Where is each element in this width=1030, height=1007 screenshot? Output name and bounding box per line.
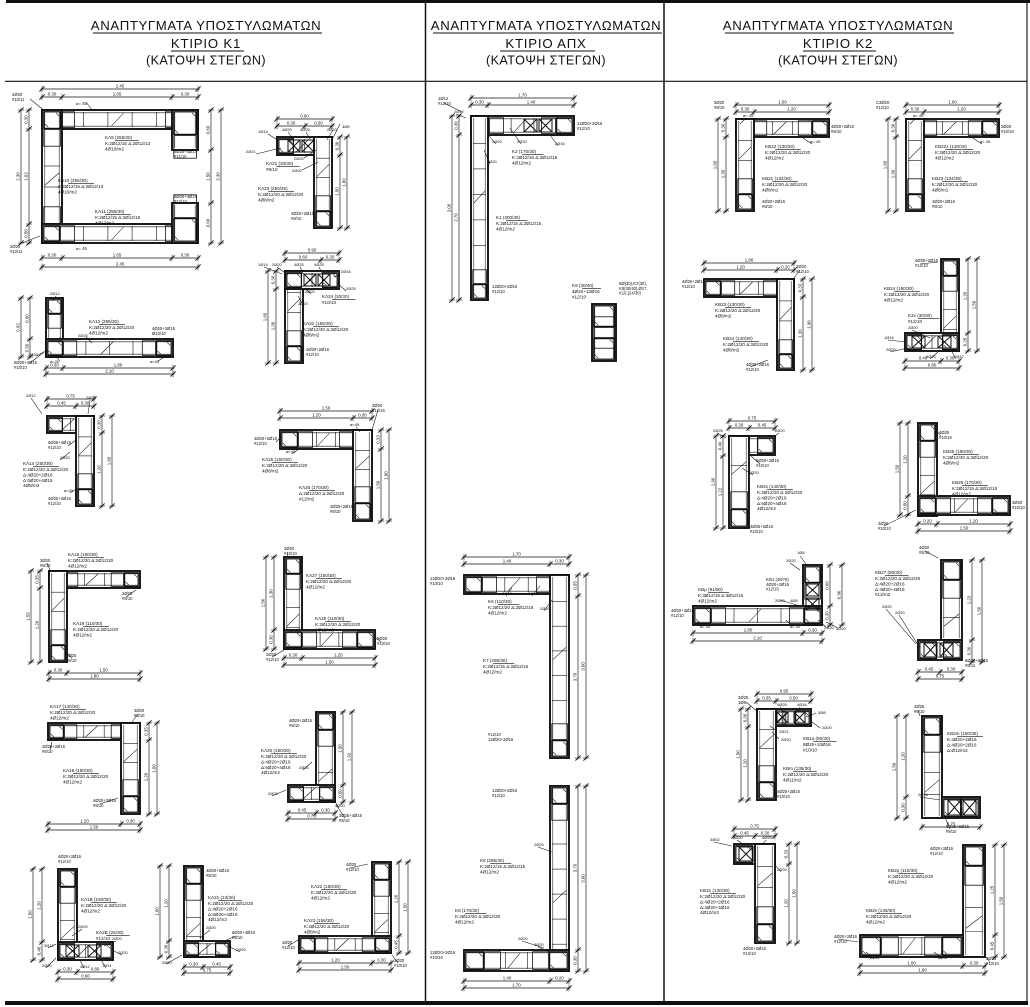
svg-text:Δ:4Ø20+2Ø16: Δ:4Ø20+2Ø16	[875, 581, 905, 586]
svg-text:1.50: 1.50	[341, 964, 350, 969]
svg-text:1.80: 1.80	[114, 362, 123, 367]
svg-text:2Ø20: 2Ø20	[28, 352, 39, 357]
svg-text:#10/10: #10/10	[322, 300, 336, 305]
svg-text:Δ:4Ø20+2Ø16: Δ:4Ø20+2Ø16	[261, 759, 291, 764]
svg-text:0.60: 0.60	[300, 113, 309, 118]
svg-text:Δ:4Ø20+2Ø16: Δ:4Ø20+2Ø16	[757, 495, 787, 500]
svg-text:1.50: 1.50	[971, 300, 976, 309]
svg-text:⌀=45: ⌀=45	[64, 488, 74, 493]
svg-text:2Ø12: 2Ø12	[50, 291, 61, 296]
svg-text:Δ:6Ø20+4Ø16: Δ:6Ø20+4Ø16	[208, 912, 238, 917]
svg-text:4Ø8/m2: 4Ø8/m2	[723, 347, 740, 352]
svg-text:2Ø20: 2Ø20	[112, 936, 123, 941]
svg-text:#8/10: #8/10	[831, 129, 842, 134]
svg-text:1.30: 1.30	[270, 321, 275, 330]
svg-text:3.00: 3.00	[446, 203, 451, 212]
svg-text:K:2Ø12/20 Δ:2Ø12/20: K:2Ø12/20 Δ:2Ø12/20	[866, 914, 912, 919]
svg-text:2Ø20: 2Ø20	[517, 139, 528, 144]
svg-text:#8/10: #8/10	[914, 709, 925, 714]
svg-text:#12/10: #12/10	[572, 294, 586, 299]
svg-text:1Ø6: 1Ø6	[738, 700, 747, 705]
svg-text:#10/10: #10/10	[394, 963, 407, 968]
svg-text:1.50: 1.50	[260, 598, 265, 607]
svg-text:2Ø20: 2Ø20	[294, 156, 305, 161]
svg-text:K:2Ø12/20 Δ:2Ø12/20: K:2Ø12/20 Δ:2Ø12/20	[700, 894, 746, 899]
svg-text:1.30: 1.30	[268, 589, 273, 598]
svg-text:0.30: 0.30	[96, 420, 101, 429]
svg-text:1.60: 1.60	[262, 312, 267, 321]
svg-text:0.30: 0.30	[735, 422, 744, 427]
svg-text:⌀=45: ⌀=45	[286, 449, 296, 454]
svg-text:⌀=45: ⌀=45	[150, 359, 160, 364]
svg-text:4Ø25: 4Ø25	[294, 262, 305, 267]
svg-text:1.20: 1.20	[957, 106, 966, 111]
svg-text:1.50: 1.50	[90, 824, 99, 829]
svg-text:0.80: 0.80	[91, 966, 100, 971]
svg-text:4Ø12/m2: 4Ø12/m2	[698, 598, 717, 603]
svg-text:0.45: 0.45	[57, 400, 66, 405]
svg-text:KΛ21 (30/30): KΛ21 (30/30)	[266, 161, 294, 166]
svg-text:⌀=45: ⌀=45	[938, 955, 948, 960]
svg-text:4Ø12/m2: 4Ø12/m2	[512, 160, 531, 165]
svg-text:K:2Ø12/15 Δ:2Ø12/15: K:2Ø12/15 Δ:2Ø12/15	[952, 486, 998, 491]
svg-text:K:2Ø12/15 Δ:2Ø12/13: K:2Ø12/15 Δ:2Ø12/13	[105, 141, 151, 146]
svg-text:2Ø20: 2Ø20	[908, 325, 919, 330]
svg-text:0.33: 0.33	[783, 849, 788, 858]
svg-text:0.33: 0.33	[375, 435, 380, 444]
svg-text:KΛ25 (150/30): KΛ25 (150/30)	[262, 457, 292, 462]
svg-text:Δ:4Ø20+2Ø16: Δ:4Ø20+2Ø16	[947, 742, 977, 747]
svg-text:0.45: 0.45	[212, 961, 221, 966]
svg-text:1.20: 1.20	[80, 818, 89, 823]
svg-text:2Ø12: 2Ø12	[454, 109, 465, 114]
svg-text:1.50: 1.50	[402, 903, 407, 912]
svg-text:K:2Ø12/15 Δ:2Ø12/15: K:2Ø12/15 Δ:2Ø12/15	[480, 864, 526, 869]
svg-text:#11/10: #11/10	[174, 154, 187, 159]
svg-text:#10/10: #10/10	[756, 463, 769, 468]
svg-text:1.50: 1.50	[375, 480, 380, 489]
svg-text:Ø10/10: Ø10/10	[152, 331, 166, 336]
svg-text:1.60: 1.60	[106, 456, 111, 465]
svg-text:2Ø20: 2Ø20	[882, 604, 893, 609]
svg-text:1.60: 1.60	[948, 99, 957, 104]
svg-text:K7 (295/30): K7 (295/30)	[483, 658, 507, 663]
svg-text:0.45: 0.45	[758, 422, 767, 427]
svg-text:1Ø14: 1Ø14	[258, 262, 269, 267]
svg-text:#12/10: #12/10	[492, 793, 505, 798]
svg-text:1.50: 1.50	[960, 525, 969, 530]
svg-text:KΒ27 (90/30): KΒ27 (90/30)	[875, 570, 903, 575]
svg-text:#12/10: #12/10	[266, 657, 279, 662]
svg-text:K:2Ø12/20 Δ:2Ø12/20: K:2Ø12/20 Δ:2Ø12/20	[262, 463, 308, 468]
svg-text:K:2Ø12/20 Δ:2Ø12/20: K:2Ø12/20 Δ:2Ø12/20	[875, 576, 921, 581]
svg-text:1.40: 1.40	[503, 558, 512, 563]
svg-text:#12/10: #12/10	[492, 289, 505, 294]
svg-text:0.20: 0.20	[923, 518, 932, 523]
svg-text:4Ø8/m2: 4Ø8/m2	[262, 468, 279, 473]
svg-text:0.30: 0.30	[808, 627, 817, 632]
svg-text:1.20: 1.20	[143, 772, 148, 781]
svg-text:#12/m2: #12/m2	[299, 496, 315, 501]
svg-text:1.20: 1.20	[312, 412, 321, 417]
svg-text:#8/10: #8/10	[232, 935, 243, 940]
svg-text:Δ:4Ø20+2Ø16: Δ:4Ø20+2Ø16	[208, 906, 238, 911]
svg-text:0.60: 0.60	[824, 581, 829, 590]
svg-text:4Ø12/m2: 4Ø12/m2	[866, 919, 885, 924]
svg-text:0.20: 0.20	[555, 975, 564, 980]
svg-text:4Ø12/m2: 4Ø12/m2	[95, 220, 114, 225]
svg-text:4Ø12/m2: 4Ø12/m2	[765, 155, 784, 160]
svg-text:0.30: 0.30	[54, 667, 63, 672]
svg-text:4Ø12/m2: 4Ø12/m2	[700, 910, 719, 915]
svg-text:#10/10: #10/10	[1001, 129, 1014, 134]
svg-text:2.10: 2.10	[105, 368, 114, 373]
svg-text:#10/10: #10/10	[1012, 505, 1025, 510]
svg-text:1.60: 1.60	[778, 99, 787, 104]
svg-text:0.30: 0.30	[572, 956, 577, 965]
svg-text:1.40: 1.40	[527, 99, 536, 104]
svg-text:0.45: 0.45	[298, 807, 307, 812]
svg-text:1.50: 1.50	[891, 762, 896, 771]
svg-text:KΛ12 (255/30): KΛ12 (255/30)	[89, 319, 119, 324]
svg-text:#12/10: #12/10	[743, 951, 756, 956]
svg-text:1.20: 1.20	[742, 759, 747, 768]
svg-text:4Ø25: 4Ø25	[314, 262, 325, 267]
svg-text:4Ø12/m2: 4Ø12/m2	[306, 584, 325, 589]
svg-text:4Ø25: 4Ø25	[282, 127, 293, 132]
svg-text:K:2Ø12/20 Δ:2Ø12/20: K:2Ø12/20 Δ:2Ø12/20	[303, 327, 349, 332]
svg-text:⌀= 45: ⌀= 45	[700, 624, 711, 629]
svg-text:1.50: 1.50	[791, 889, 796, 898]
svg-text:1.50: 1.50	[735, 750, 740, 759]
svg-text:KΛ10 (255/30): KΛ10 (255/30)	[58, 178, 88, 183]
svg-text:1.20: 1.20	[96, 465, 101, 474]
svg-text:KΛ23 (156/30): KΛ23 (156/30)	[304, 918, 334, 923]
svg-text:4Ø12/m2: 4Ø12/m2	[73, 632, 92, 637]
svg-text:1.92: 1.92	[346, 752, 351, 761]
svg-text:3Ø20: 3Ø20	[528, 591, 539, 596]
svg-text:KΒ2p (110/30): KΒ2p (110/30)	[888, 868, 918, 873]
svg-text:0.30: 0.30	[475, 99, 484, 104]
svg-text:2Ø20: 2Ø20	[822, 725, 833, 730]
svg-text:0.40: 0.40	[36, 946, 41, 955]
svg-text:4Ø8/m2: 4Ø8/m2	[23, 483, 40, 488]
svg-text:1.20: 1.20	[787, 106, 796, 111]
svg-text:Δ:4Ø20+2Ø16: Δ:4Ø20+2Ø16	[23, 472, 53, 477]
svg-text:0.75: 0.75	[203, 967, 212, 972]
svg-text:0.45: 0.45	[393, 940, 398, 949]
svg-text:1.20: 1.20	[331, 957, 340, 962]
svg-text:0.35: 0.35	[34, 575, 39, 584]
svg-text:#12/10: #12/10	[48, 445, 61, 450]
svg-text:#12/10: #12/10	[254, 441, 267, 446]
svg-text:4Ø12/m2: 4Ø12/m2	[89, 330, 108, 335]
svg-text:4Ø8: 4Ø8	[790, 598, 798, 603]
svg-text:#8/10: #8/10	[919, 550, 930, 555]
svg-text:K9 (30/40): K9 (30/40)	[572, 283, 594, 288]
svg-text:2Ø21: 2Ø21	[779, 729, 790, 734]
svg-text:4Ø10/m2: 4Ø10/m2	[105, 146, 124, 151]
svg-text:K:2Ø12/20 Δ:2Ø12/20: K:2Ø12/20 Δ:2Ø12/20	[315, 622, 361, 627]
svg-text:ΚΤΙΡΙΟ Κ1: ΚΤΙΡΙΟ Κ1	[171, 36, 241, 51]
svg-text:2.30: 2.30	[15, 172, 20, 181]
svg-text:KΛ14 (250/30): KΛ14 (250/30)	[23, 461, 53, 466]
svg-text:1.20: 1.20	[34, 620, 39, 629]
svg-text:KΒ25 (150/30): KΒ25 (150/30)	[943, 449, 973, 454]
svg-text:4Ø12/m2: 4Ø12/m2	[81, 908, 100, 913]
svg-text:4Ø12/m2: 4Ø12/m2	[935, 155, 954, 160]
svg-text:0.30: 0.30	[824, 611, 829, 620]
svg-text:0.60: 0.60	[205, 125, 210, 134]
svg-text:#10/10: #10/10	[878, 526, 891, 531]
svg-text:KΛ20 (150/30): KΛ20 (150/30)	[261, 748, 291, 753]
svg-text:KΛ17 (140/30): KΛ17 (140/30)	[50, 704, 80, 709]
svg-text:0.90: 0.90	[308, 247, 317, 252]
svg-text:4Ø8/m2: 4Ø8/m2	[943, 460, 960, 465]
svg-text:0.90: 0.90	[836, 590, 841, 599]
svg-text:4Ø11/m2: 4Ø11/m2	[783, 777, 802, 782]
svg-text:0.30: 0.30	[23, 115, 28, 124]
svg-text:2Ø20: 2Ø20	[518, 936, 529, 941]
svg-text:K:2Ø12/20 Δ:2Ø12/20: K:2Ø12/20 Δ:2Ø12/20	[63, 774, 109, 779]
svg-text:2Ø20: 2Ø20	[749, 470, 760, 475]
svg-text:4Ø12/m2: 4Ø12/m2	[50, 715, 69, 720]
svg-text:8Ø25+10Ø16: 8Ø25+10Ø16	[803, 742, 831, 747]
svg-text:#12/10: #12/10	[876, 105, 889, 110]
svg-text:K:2Ø12/20 Δ:2Ø12/20: K:2Ø12/20 Δ:2Ø12/20	[757, 490, 803, 495]
svg-text:1.60: 1.60	[882, 160, 887, 169]
svg-text:0.30: 0.30	[741, 106, 750, 111]
svg-text:K2 (170/30): K2 (170/30)	[512, 149, 536, 154]
svg-text:KΛ9 (255/30): KΛ9 (255/30)	[105, 135, 133, 140]
svg-text:0.50: 0.50	[24, 343, 29, 352]
svg-text:0.25: 0.25	[962, 337, 967, 346]
svg-text:2Ø20: 2Ø20	[292, 168, 303, 173]
svg-text:0.30: 0.30	[720, 123, 725, 132]
svg-text:K:2Ø12/20 Δ:2Ø12/20: K:2Ø12/20 Δ:2Ø12/20	[258, 192, 304, 197]
svg-text:1.23: 1.23	[966, 595, 971, 604]
svg-text:4Ø8/m2: 4Ø8/m2	[303, 332, 320, 337]
svg-text:Δ:4Ø20+4Ø16: Δ:4Ø20+4Ø16	[875, 587, 905, 592]
svg-text:K6 (110/30): K6 (110/30)	[488, 599, 512, 604]
svg-text:1.20: 1.20	[902, 455, 907, 464]
svg-text:2Ø20: 2Ø20	[733, 835, 744, 840]
svg-text:K:2Ø12/20 Δ:2Ø12/20: K:2Ø12/20 Δ:2Ø12/20	[888, 874, 934, 879]
svg-text:K:2Ø12/20 Δ:2Ø12/20: K:2Ø12/20 Δ:2Ø12/20	[455, 914, 501, 919]
svg-text:1.30: 1.30	[890, 169, 895, 178]
svg-text:#12/10: #12/10	[908, 319, 922, 324]
svg-text:KΒ21 (134/30): KΒ21 (134/30)	[762, 176, 792, 181]
svg-text:Δ:2Ø12/20 Δ:2Ø12/20: Δ:2Ø12/20 Δ:2Ø12/20	[299, 491, 345, 496]
svg-text:2Ø20: 2Ø20	[236, 947, 247, 952]
svg-text:ΑΝΑΠΤΥΓΜΑΤΑ ΥΠΟΣΤΥΛΩΜΑΤΩΝ: ΑΝΑΠΤΥΓΜΑΤΑ ΥΠΟΣΤΥΛΩΜΑΤΩΝ	[431, 18, 661, 33]
svg-text:1.80: 1.80	[744, 627, 753, 632]
svg-text:2Ø20: 2Ø20	[775, 598, 786, 603]
svg-text:KΒ24 (140/30): KΒ24 (140/30)	[723, 336, 753, 341]
svg-text:1.50: 1.50	[998, 896, 1003, 905]
svg-text:0.45: 0.45	[925, 666, 934, 671]
svg-text:0.50: 0.50	[789, 695, 798, 700]
svg-text:K5 (170/30): K5 (170/30)	[455, 908, 479, 913]
svg-text:K:2Ø12/20 Δ:2Ø12/20: K:2Ø12/20 Δ:2Ø12/20	[261, 754, 307, 759]
svg-text:KΒ2m (150/30): KΒ2m (150/30)	[947, 731, 978, 736]
svg-text:#12/10: #12/10	[746, 367, 759, 372]
svg-text:2Ø20: 2Ø20	[786, 558, 797, 563]
svg-text:0.30: 0.30	[911, 106, 920, 111]
svg-text:2Ø20: 2Ø20	[781, 737, 792, 742]
svg-text:KΒ26 (170/30): KΒ26 (170/30)	[952, 480, 982, 485]
svg-text:4Ø20: 4Ø20	[487, 159, 498, 164]
svg-text:2Ø25: 2Ø25	[713, 428, 724, 433]
svg-text:1.30: 1.30	[720, 169, 725, 178]
svg-text:KΛ1B (150/30): KΛ1B (150/30)	[81, 897, 112, 902]
svg-text:0.20: 0.20	[781, 264, 790, 269]
svg-text:0.80: 0.80	[928, 362, 937, 367]
svg-text:K:2Ø12/20 Δ:2Ø12/20: K:2Ø12/20 Δ:2Ø12/20	[723, 342, 769, 347]
svg-text:#10/11: #10/11	[10, 249, 23, 254]
svg-text:2Ø25: 2Ø25	[78, 333, 89, 338]
svg-text:0.50: 0.50	[24, 314, 29, 323]
svg-text:0.75: 0.75	[750, 823, 759, 828]
svg-text:K:2Ø12/15 Δ:2Ø12/15: K:2Ø12/15 Δ:2Ø12/15	[483, 664, 529, 669]
svg-text:#10/10: #10/10	[777, 794, 790, 799]
svg-text:2Ø20: 2Ø20	[42, 963, 53, 968]
svg-text:4Ø12/m2: 4Ø12/m2	[952, 491, 971, 496]
svg-text:3Ø8: 3Ø8	[818, 710, 826, 715]
svg-text:0.30: 0.30	[555, 558, 564, 563]
svg-text:ΚΤΙΡΙΟ ΑΠΧ: ΚΤΙΡΙΟ ΑΠΧ	[505, 36, 586, 51]
svg-text:1.80: 1.80	[383, 471, 388, 480]
svg-text:#12/10: #12/10	[58, 859, 71, 864]
svg-text:KΒm (135/30): KΒm (135/30)	[783, 766, 812, 771]
svg-text:#10/10: #10/10	[430, 955, 443, 960]
svg-text:0.30: 0.30	[947, 666, 956, 671]
svg-text:2.45: 2.45	[116, 261, 125, 266]
svg-text:1Ø8: 1Ø8	[797, 550, 805, 555]
svg-text:0.35: 0.35	[572, 581, 577, 590]
svg-text:#10/15: #10/15	[939, 435, 952, 440]
svg-text:K:2Ø12/20 Δ:2Ø12/20: K:2Ø12/20 Δ:2Ø12/20	[311, 890, 357, 895]
svg-text:1.50: 1.50	[99, 667, 108, 672]
svg-text:1.90: 1.90	[745, 257, 754, 262]
svg-text:KΒ22x (130/30): KΒ22x (130/30)	[935, 144, 967, 149]
svg-text:1.20: 1.20	[736, 264, 745, 269]
svg-text:2.10: 2.10	[753, 635, 762, 640]
svg-text:(ΚΑΤΟΨΗ ΣΤΕΓΩΝ): (ΚΑΤΟΨΗ ΣΤΕΓΩΝ)	[146, 54, 266, 68]
svg-text:2Ø16: 2Ø16	[341, 269, 352, 274]
svg-text:⌀= 45: ⌀= 45	[790, 624, 801, 629]
svg-text:4Ø20+12Ø16: 4Ø20+12Ø16	[572, 289, 600, 294]
svg-text:KΛ19 (110/30): KΛ19 (110/30)	[73, 621, 103, 626]
svg-text:KΛ28 (110/30): KΛ28 (110/30)	[315, 616, 345, 621]
svg-text:#8/10: #8/10	[946, 829, 957, 834]
svg-text:⌀= 45: ⌀= 45	[76, 246, 87, 251]
svg-text:K:2Ø12/20 Δ:2Ø12/20: K:2Ø12/20 Δ:2Ø12/20	[943, 455, 989, 460]
svg-text:4Ø8/m2: 4Ø8/m2	[715, 313, 732, 318]
svg-text:#8/10: #8/10	[339, 818, 350, 823]
svg-text:K:2Ø12/20 Δ:2Ø12/20: K:2Ø12/20 Δ:2Ø12/20	[208, 901, 254, 906]
svg-text:1.20: 1.20	[36, 901, 41, 910]
svg-text:1.30: 1.30	[797, 329, 802, 338]
svg-text:4Ø25: 4Ø25	[777, 702, 788, 707]
svg-text:KΒ1a (90/30): KΒ1a (90/30)	[803, 736, 831, 741]
svg-text:2Ø20: 2Ø20	[78, 924, 89, 929]
svg-text:(ΚΑΤΟΨΗ ΣΤΕΓΩΝ): (ΚΑΤΟΨΗ ΣΤΕΓΩΝ)	[778, 54, 898, 68]
svg-text:0.30: 0.30	[314, 120, 323, 125]
svg-text:0.92: 0.92	[15, 323, 20, 332]
svg-text:0.30: 0.30	[181, 91, 190, 96]
svg-text:1.90: 1.90	[918, 967, 927, 972]
svg-text:0.90: 0.90	[81, 973, 90, 978]
svg-text:#10/10: #10/10	[986, 961, 999, 966]
svg-text:1.55: 1.55	[25, 612, 30, 621]
svg-text:(ΚΑΤΟΨΗ ΣΤΕΓΩΝ): (ΚΑΤΟΨΗ ΣΤΕΓΩΝ)	[486, 54, 606, 68]
svg-text:1.65: 1.65	[113, 91, 122, 96]
svg-text:#12/10: #12/10	[284, 551, 297, 556]
svg-text:0.30: 0.30	[181, 252, 190, 257]
svg-text:KΛ27 (150/30): KΛ27 (150/30)	[306, 573, 336, 578]
svg-text:#12/10: #12/10	[174, 199, 187, 204]
svg-text:K:2Ø12/20 Δ:2Ø12/20: K:2Ø12/20 Δ:2Ø12/20	[68, 558, 114, 563]
svg-text:0.75: 0.75	[307, 813, 316, 818]
svg-text:#8/10: #8/10	[330, 509, 341, 514]
svg-text:Δ:6Ø20+4Ø16: Δ:6Ø20+4Ø16	[23, 478, 53, 483]
svg-text:⌀=45: ⌀=45	[870, 955, 880, 960]
svg-text:0.30: 0.30	[358, 412, 367, 417]
svg-text:4Ø12/m2: 4Ø12/m2	[757, 506, 776, 511]
svg-text:2Ø16: 2Ø16	[918, 792, 929, 797]
svg-text:3.00: 3.00	[580, 662, 585, 671]
svg-text:0.50: 0.50	[23, 229, 28, 238]
svg-text:4Ø12/m2: 4Ø12/m2	[315, 627, 334, 632]
svg-text:#10/10: #10/10	[803, 747, 817, 752]
svg-text:2Ø16: 2Ø16	[555, 141, 566, 146]
svg-text:0.35: 0.35	[762, 695, 771, 700]
svg-text:ΑΝΑΠΤΥΓΜΑΤΑ ΥΠΟΣΤΥΛΩΜΑΤΩΝ: ΑΝΑΠΤΥΓΜΑΤΑ ΥΠΟΣΤΥΛΩΜΑΤΩΝ	[723, 18, 953, 33]
svg-text:3.30: 3.30	[215, 172, 220, 181]
svg-text:4Ø12/m2: 4Ø12/m2	[488, 610, 507, 615]
svg-text:4Ø12/m2: 4Ø12/m2	[455, 919, 474, 924]
svg-text:0.30: 0.30	[900, 803, 905, 812]
svg-text:#12/10: #12/10	[306, 352, 319, 357]
svg-text:1.50: 1.50	[334, 187, 339, 196]
svg-text:0.30: 0.30	[377, 957, 386, 962]
svg-text:KΛ23 (250/25): KΛ23 (250/25)	[258, 186, 288, 191]
svg-text:2.45: 2.45	[116, 83, 125, 88]
svg-text:KΛ26 (170/30): KΛ26 (170/30)	[299, 485, 329, 490]
svg-text:1.70: 1.70	[512, 551, 521, 556]
svg-text:0.75: 0.75	[748, 415, 757, 420]
svg-text:⌀=45: ⌀=45	[350, 422, 360, 427]
svg-text:#8/10: #8/10	[291, 216, 302, 221]
svg-text:#8/10: #8/10	[714, 105, 725, 110]
svg-text:0.40: 0.40	[717, 441, 722, 450]
svg-text:#12/10: #12/10	[682, 284, 695, 289]
svg-text:#10/11: #10/11	[12, 97, 25, 102]
svg-text:4Ø16: 4Ø16	[797, 702, 808, 707]
svg-text:2Ø21: 2Ø21	[246, 149, 257, 154]
svg-text:K:2Ø12/20 Δ:2Ø12/20: K:2Ø12/20 Δ:2Ø12/20	[81, 903, 127, 908]
svg-text:4Ø8/m2: 4Ø8/m2	[258, 197, 275, 202]
svg-text:0.30: 0.30	[970, 960, 979, 965]
svg-text:1.60: 1.60	[154, 907, 159, 916]
svg-text:#10/10: #10/10	[14, 365, 27, 370]
svg-text:4Ø8/m1: 4Ø8/m1	[932, 187, 949, 192]
svg-text:4Ø12/m2: 4Ø12/m2	[480, 869, 499, 874]
svg-text:1.20: 1.20	[783, 899, 788, 908]
svg-text:KΒ31 (130/30): KΒ31 (130/30)	[700, 888, 730, 893]
svg-text:K:2Ø12/20 Δ:2Ø12/20: K:2Ø12/20 Δ:2Ø12/20	[765, 150, 811, 155]
